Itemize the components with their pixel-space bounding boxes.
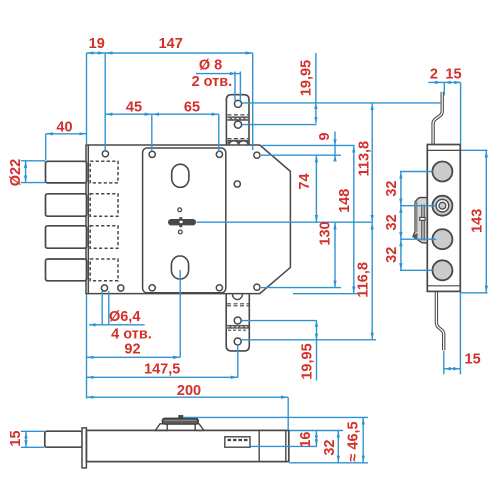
svg-text:16: 16	[298, 432, 314, 448]
svg-text:116,8: 116,8	[356, 262, 372, 298]
svg-text:19,95: 19,95	[298, 60, 314, 96]
svg-text:143: 143	[470, 209, 486, 233]
svg-text:19: 19	[89, 36, 105, 52]
svg-text:15: 15	[445, 67, 461, 83]
svg-text:32: 32	[384, 181, 400, 197]
svg-text:Ø22: Ø22	[8, 159, 24, 186]
svg-text:9: 9	[317, 132, 333, 140]
svg-text:92: 92	[124, 342, 140, 358]
svg-text:65: 65	[184, 100, 200, 116]
svg-text:Ø6,4: Ø6,4	[109, 309, 140, 325]
svg-text:2 отв.: 2 отв.	[192, 74, 233, 90]
svg-text:Ø 8: Ø 8	[199, 57, 222, 73]
svg-text:148: 148	[337, 189, 353, 213]
svg-text:32: 32	[384, 247, 400, 263]
svg-text:32: 32	[322, 440, 338, 456]
svg-text:4 отв.: 4 отв.	[111, 327, 152, 343]
svg-text:113,8: 113,8	[356, 141, 372, 177]
svg-text:200: 200	[177, 383, 201, 399]
svg-text:15: 15	[465, 352, 481, 368]
svg-text:40: 40	[56, 120, 72, 136]
svg-text:15: 15	[8, 430, 24, 446]
svg-text:74: 74	[297, 173, 313, 189]
svg-text:45: 45	[126, 100, 142, 116]
svg-text:130: 130	[317, 221, 333, 245]
svg-text:19,95: 19,95	[300, 343, 316, 379]
svg-text:147,5: 147,5	[144, 362, 180, 378]
svg-text:147: 147	[159, 36, 183, 52]
svg-text:32: 32	[384, 214, 400, 230]
svg-text:≈ 46,5: ≈ 46,5	[345, 421, 361, 461]
svg-text:2: 2	[430, 67, 438, 83]
